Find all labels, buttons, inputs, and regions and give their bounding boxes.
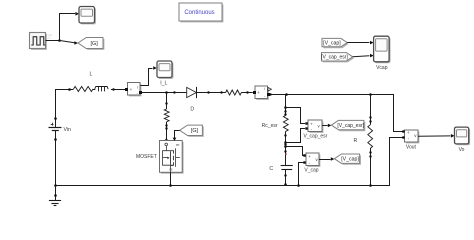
svg-text:Vcap: Vcap: [376, 65, 388, 71]
DC source Vin: [49, 117, 62, 141]
svg-text:+: +: [257, 90, 260, 95]
goto tag [V_cap_esr]: [331, 120, 365, 131]
svg-text:+: +: [407, 130, 410, 135]
wire Vout to scope Vo: [418, 134, 455, 138]
node V_cap plus tap: [284, 145, 287, 148]
wire gate: [173, 131, 180, 142]
wire rail to Vout: [270, 95, 404, 132]
svg-text:Vo: Vo: [459, 147, 465, 153]
ports Rc_esr: [284, 110, 286, 112]
svg-text:V_cap_esr: V_cap_esr: [303, 134, 327, 140]
annotation faint: [48, 35, 53, 39]
wire: [285, 131, 287, 165]
svg-text:V_cap: V_cap: [304, 167, 318, 173]
resistor R: [368, 125, 373, 149]
wire to scope Vcap 2: [353, 54, 374, 58]
node rail-L branch: [68, 88, 71, 91]
svg-text:Vin: Vin: [64, 127, 72, 133]
svg-text:Vout: Vout: [406, 145, 417, 151]
wire junction to scope: [60, 12, 80, 40]
powergui Continuous block: [179, 3, 223, 22]
port dot: [284, 134, 286, 136]
svg-text:[G]: [G]: [191, 128, 199, 134]
node V_cap_esr plus tap: [284, 106, 287, 109]
wire diode to Resr branch: [197, 91, 226, 93]
diode D port: [173, 91, 175, 93]
wire to current measurement 2: [241, 91, 252, 93]
port dot: [269, 93, 271, 95]
inductor L: [95, 87, 109, 92]
wire to goto V_cap_esr: [322, 124, 331, 128]
wire to goto V_cap: [319, 157, 334, 161]
from tag [V_cap_esr]: [321, 53, 354, 63]
wire R branch bottom: [369, 149, 372, 187]
svg-text:R: R: [354, 138, 358, 144]
from tag [G]: [180, 125, 204, 137]
wire i output to scope I_L: [141, 66, 157, 85]
wire to scope Vcap: [347, 41, 373, 45]
goto tag [V_cap]: [334, 154, 361, 165]
voltage measurement V_cap_esr: [305, 120, 323, 133]
resistor (cap branch series R): [226, 90, 242, 95]
svg-text:[V_cap]: [V_cap]: [341, 157, 359, 163]
scope Vcap: [374, 36, 391, 63]
resistor Rc_esr: [283, 115, 288, 131]
resistor of L branch: [74, 87, 94, 92]
ground: [49, 201, 61, 206]
port dot: [284, 150, 286, 152]
wire L to current measurement: [111, 88, 126, 90]
node mosfet branch: [165, 91, 168, 94]
voltage measurement Vout: [402, 130, 419, 144]
wire plus tap to V_cap_esr: [286, 108, 305, 124]
svg-text:m: m: [176, 142, 179, 147]
wire minus to bottom rail: [297, 163, 304, 187]
scope I_L: [157, 61, 173, 79]
svg-text:Rc_esr: Rc_esr: [262, 123, 278, 129]
svg-text:Continuous: Continuous: [184, 10, 214, 16]
voltage measurement V_cap: [303, 153, 320, 167]
svg-text:[V_cap]: [V_cap]: [323, 40, 341, 46]
pulse generator PWM: [30, 33, 47, 50]
node load R branch: [369, 93, 372, 96]
scope (gate signal): [79, 7, 96, 25]
wire cap to bottom rail: [284, 170, 286, 186]
scope Vo: [455, 127, 471, 145]
wire junction to goto G: [59, 40, 78, 44]
diode D: [187, 87, 197, 98]
bottom rail wire: [55, 138, 403, 186]
wire cap branch: [285, 95, 287, 116]
svg-text:MOSFET: MOSFET: [136, 154, 157, 160]
goto tag [G]: [78, 38, 104, 50]
wire left rail top: [56, 90, 74, 119]
svg-text:i: i: [264, 87, 265, 91]
svg-text:i: i: [137, 86, 138, 90]
ground wire: [54, 185, 57, 200]
unconnected i output arrow: [268, 87, 271, 91]
wire mosfet source: [169, 172, 172, 187]
node V_cap_esr minus tap: [284, 141, 287, 144]
wire R branch top: [369, 95, 371, 125]
svg-text:C: C: [269, 166, 273, 172]
wire Vin to bottom rail: [55, 140, 57, 186]
svg-text:I_L: I_L: [160, 80, 167, 86]
from tag [V_cap]: [322, 38, 349, 48]
current measurement I_L block: [125, 83, 142, 97]
resistor mosfet drain: [164, 109, 169, 122]
mosfet branch from rail: [165, 93, 167, 109]
svg-text:[V_cap_esr]: [V_cap_esr]: [337, 123, 364, 129]
node cap bottom: [284, 183, 287, 186]
wire plus tap to V_cap: [286, 147, 304, 156]
svg-text:[V_cap_esr]: [V_cap_esr]: [321, 55, 348, 61]
wire to mosfet node: [142, 92, 175, 94]
wire minus tap to V_cap_esr: [286, 129, 305, 143]
drain port arrow: [165, 138, 169, 141]
wire: [93, 89, 95, 91]
wire to mosfet drain: [165, 122, 167, 141]
wire pulse to junction: [46, 40, 60, 42]
node capacitor branch: [285, 93, 288, 96]
svg-text:D: D: [190, 107, 194, 113]
current measurement block 2: [253, 86, 270, 100]
svg-text:L: L: [90, 72, 93, 78]
MOSFET block: [160, 141, 184, 174]
polarity mark: [285, 153, 287, 155]
node source bottom: [54, 184, 57, 187]
svg-text:+: +: [308, 154, 311, 159]
wire: [175, 92, 187, 94]
svg-text:+: +: [130, 87, 133, 92]
junction pulse output: [58, 39, 61, 42]
svg-text:ds: ds: [169, 168, 173, 172]
svg-text:[G]: [G]: [91, 41, 99, 47]
capacitor C: [281, 166, 293, 170]
